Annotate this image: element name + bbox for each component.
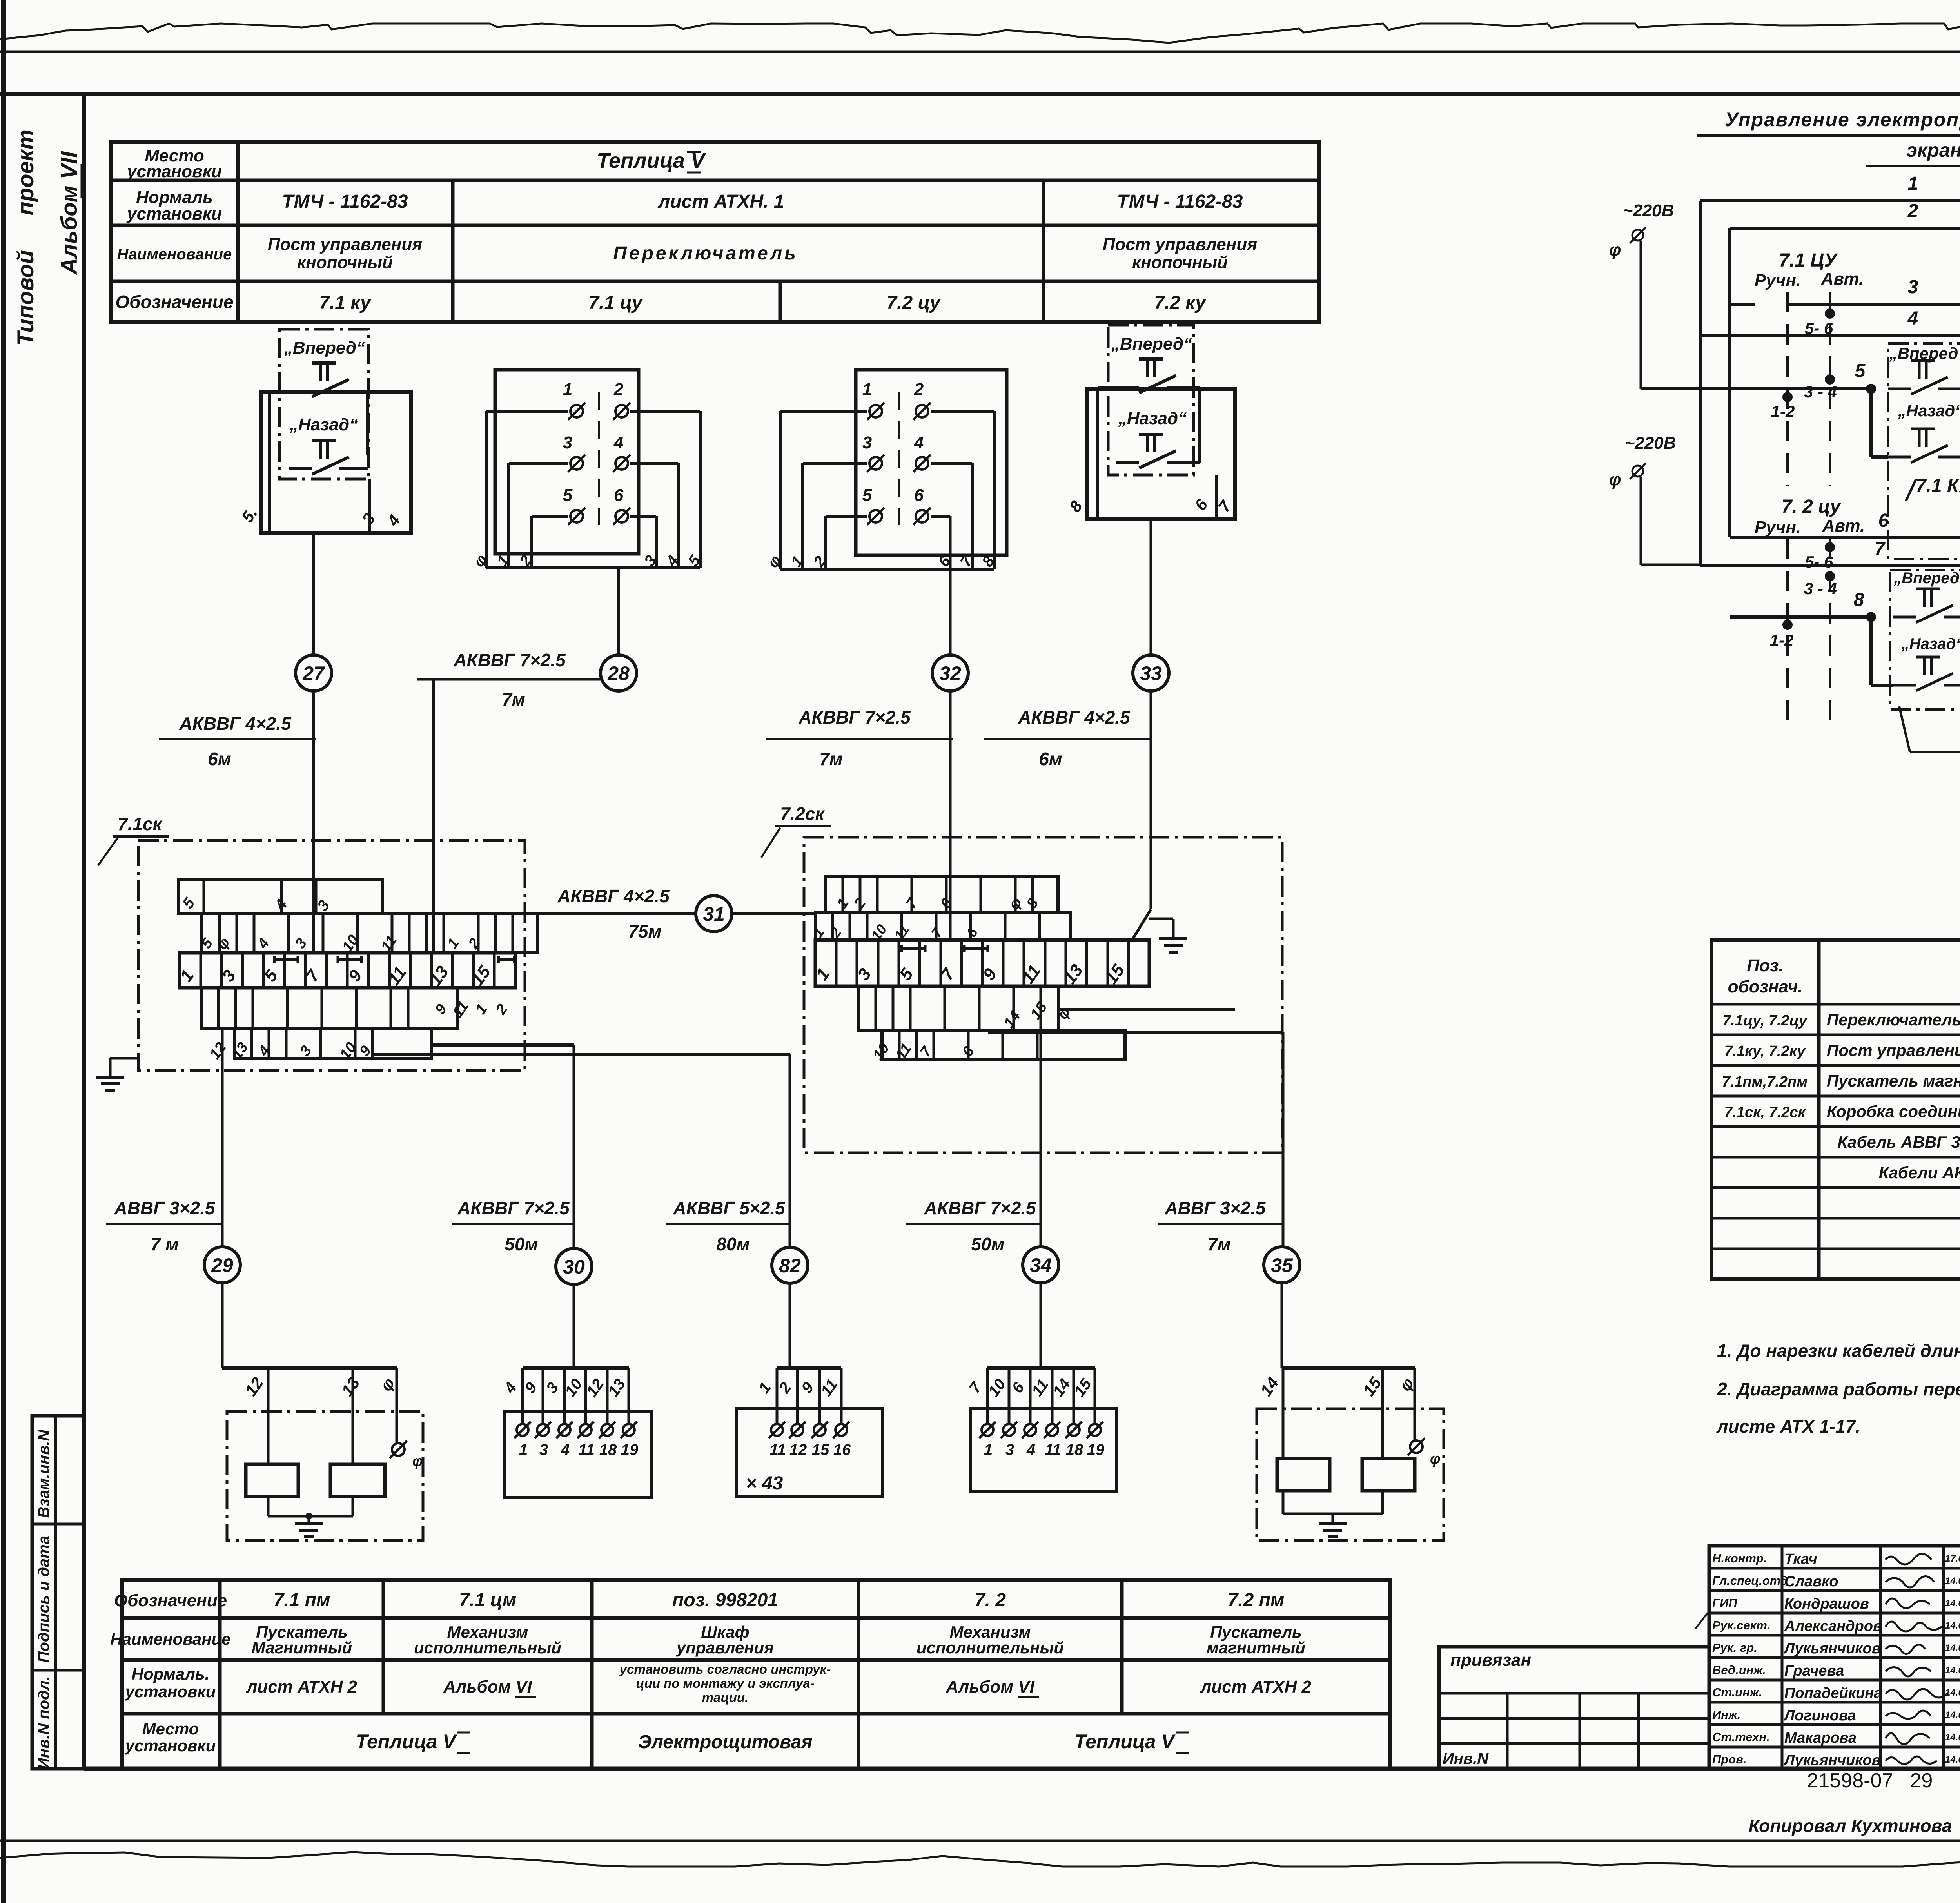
svg-text:АКВВГ 4×2.5: АКВВГ 4×2.5 bbox=[179, 713, 292, 734]
post 7.2ку internal wires bbox=[1098, 386, 1116, 389]
branch to Назад contact bbox=[1869, 389, 1873, 457]
svg-text:Пров.: Пров. bbox=[1712, 1752, 1747, 1766]
svg-text:установки: установки bbox=[126, 162, 222, 181]
svg-text:6: 6 bbox=[1878, 510, 1889, 531]
svg-text:Альбом VI: Альбом VI bbox=[946, 1677, 1035, 1696]
packet switch 7.1цу core wires bbox=[486, 410, 568, 413]
svg-text:Пост управления: Пост управления bbox=[268, 235, 422, 254]
svg-text:7 м: 7 м bbox=[151, 1234, 179, 1254]
svg-text:30: 30 bbox=[563, 1256, 585, 1278]
svg-text:3: 3 bbox=[563, 433, 572, 452]
svg-text:11: 11 bbox=[769, 1441, 786, 1459]
svg-text:φ: φ bbox=[1609, 240, 1621, 259]
svg-text:φ: φ bbox=[1609, 470, 1621, 489]
starter 7.2пм coil 2 bbox=[1362, 1459, 1415, 1491]
main wire upper group bbox=[1641, 387, 1866, 390]
drawing frame bbox=[82, 94, 86, 1769]
bottom margin line bbox=[0, 1840, 1960, 1842]
button 7.1ку in control circuit bbox=[1888, 343, 1960, 559]
cabinet terminal 4 bbox=[835, 1424, 847, 1436]
cable marker 33 bbox=[1133, 655, 1169, 691]
parts list table bbox=[1711, 940, 1960, 1279]
wire: cable 28 down to box 7.1ск bbox=[432, 679, 435, 953]
starter 7.1пм coil 2 bbox=[330, 1464, 385, 1497]
svg-text:обознач.: обознач. bbox=[1728, 977, 1803, 996]
box 7.2ск upper channel row B bbox=[815, 913, 1070, 940]
svg-text:15: 15 bbox=[812, 1441, 829, 1459]
mechanism 7.2 terminal 2 bbox=[1003, 1424, 1015, 1436]
mechanism 7.2 terminal 4 bbox=[1046, 1424, 1058, 1436]
box 7.2ск ground bbox=[1149, 918, 1173, 920]
mechanism 7.2 terminal 1 bbox=[982, 1424, 993, 1436]
wire 6 bbox=[1730, 536, 1960, 539]
svg-text:14.01.86г: 14.01.86г bbox=[1945, 1665, 1960, 1676]
starter 7.2пм ground bbox=[1282, 1491, 1285, 1514]
packet switch 7.1цу terminal 6 bbox=[615, 510, 628, 522]
svg-text:исполнительный: исполнительный bbox=[916, 1638, 1064, 1657]
svg-text:14.01.86г: 14.01.86г bbox=[1945, 1732, 1960, 1743]
svg-text:Инж.: Инж. bbox=[1712, 1708, 1740, 1722]
svg-text:6: 6 bbox=[914, 486, 924, 505]
svg-text:Логинова: Логинова bbox=[1783, 1707, 1856, 1724]
svg-text:7: 7 bbox=[1875, 539, 1886, 559]
post 7.1ку internal wires bbox=[270, 390, 289, 393]
svg-text:4: 4 bbox=[914, 433, 924, 452]
svg-text:Подпись и дата: Подпись и дата bbox=[35, 1536, 53, 1663]
svg-text:АКВВГ 5×2.5: АКВВГ 5×2.5 bbox=[673, 1198, 786, 1218]
svg-text:1: 1 bbox=[862, 380, 872, 399]
box 7.2ск lower channel row C bbox=[858, 986, 1058, 1031]
table: bottom equipment designation bbox=[122, 1580, 1390, 1769]
main wire lower group bbox=[1730, 615, 1866, 619]
svg-text:Лукьянчиков: Лукьянчиков bbox=[1783, 1752, 1881, 1769]
svg-text:7.1 ку: 7.1 ку bbox=[319, 292, 372, 313]
mechanism 7.2 terminal 5 bbox=[1068, 1424, 1080, 1436]
svg-text:Наименование: Наименование bbox=[117, 246, 232, 263]
cable marker 27 bbox=[296, 655, 332, 691]
svg-text:7.1 ЦУ: 7.1 ЦУ bbox=[1779, 250, 1838, 271]
svg-text:Ручн.: Ручн. bbox=[1755, 518, 1801, 537]
wire 3 bbox=[1730, 303, 1755, 306]
wire: cable 32 down to box 7.2ск bbox=[949, 691, 952, 940]
table: equipment designation (top left) bbox=[111, 142, 1319, 322]
svg-text:Пост управления кнопочный ПКЕ: Пост управления кнопочный ПКЕ 222-2 bbox=[1827, 1041, 1960, 1059]
packet switch 7.2цу terminal 3 bbox=[869, 457, 882, 470]
svg-text:Пускатель магнитный: Пускатель магнитный bbox=[1827, 1072, 1960, 1090]
svg-text:2: 2 bbox=[1907, 201, 1918, 221]
packet switch 7.2цу bbox=[856, 370, 1007, 555]
svg-text:35: 35 bbox=[1271, 1254, 1293, 1276]
svg-text:7.2 цу: 7.2 цу bbox=[886, 292, 941, 313]
torn paper edge top bbox=[0, 24, 1960, 43]
svg-text:31: 31 bbox=[703, 903, 725, 925]
svg-text:ции по монтажу и эксплуа-: ции по монтажу и эксплуа- bbox=[636, 1676, 814, 1691]
cable marker 30 bbox=[556, 1248, 592, 1284]
control cabinet terminals поз.998201 (bottom) bbox=[777, 1366, 841, 1370]
svg-text:2: 2 bbox=[914, 380, 924, 399]
starter 7.1пм ground bbox=[267, 1497, 270, 1516]
svg-text:Ст.инж.: Ст.инж. bbox=[1712, 1685, 1762, 1699]
svg-text:4: 4 bbox=[613, 433, 623, 452]
svg-text:листе АТХ 1-17.: листе АТХ 1-17. bbox=[1716, 1416, 1860, 1437]
svg-text:3: 3 bbox=[539, 1441, 548, 1459]
svg-text:6м: 6м bbox=[208, 749, 231, 769]
cable 31 line bbox=[537, 912, 696, 915]
svg-text:Копировал Кухтинова: Копировал Кухтинова bbox=[1749, 1816, 1952, 1836]
svg-text:Кабели АКВВГ ГОСТ 1508-: Кабели АКВВГ ГОСТ 1508-78 bbox=[1879, 1163, 1960, 1182]
torn paper edge bottom bbox=[0, 1850, 1960, 1867]
svg-text:50м: 50м bbox=[971, 1234, 1004, 1254]
svg-text:„Вперед“: „Вперед“ bbox=[1893, 570, 1960, 587]
packet switch 7.2цу terminal 5 bbox=[869, 510, 882, 522]
wire: box 7.2ск to cable 35 bbox=[988, 1031, 1283, 1034]
box 7.1ск ground bbox=[110, 1057, 138, 1060]
svg-text:1-2: 1-2 bbox=[1770, 631, 1794, 649]
svg-text:АВВГ 3×2.5: АВВГ 3×2.5 bbox=[114, 1198, 215, 1218]
svg-text:Переключатель пакетный ПКП 25-: Переключатель пакетный ПКП 25- 44 -13-У2 bbox=[1827, 1010, 1960, 1029]
svg-text:~220В: ~220В bbox=[1625, 434, 1676, 453]
svg-text:7.1ск: 7.1ск bbox=[118, 814, 163, 834]
svg-text:6м: 6м bbox=[1039, 749, 1062, 769]
mechanism 7.2 (bottom) bbox=[987, 1366, 1095, 1370]
box 7.2ск terminal strip bbox=[815, 940, 1149, 986]
svg-text:80м: 80м bbox=[716, 1234, 750, 1254]
packet switch 7.1цу terminal 3 bbox=[570, 457, 583, 470]
svg-text:5- 6: 5- 6 bbox=[1805, 553, 1833, 571]
wire: cable 27 down to box 7.1ск bbox=[312, 691, 315, 953]
svg-text:32: 32 bbox=[939, 662, 961, 684]
svg-text:Коробка соединительная КСК-1: Коробка соединительная КСК-16 ТУ36.1753-… bbox=[1827, 1102, 1960, 1121]
svg-text:7.2 ку: 7.2 ку bbox=[1154, 292, 1207, 313]
svg-text:„Назад“: „Назад“ bbox=[289, 415, 358, 434]
svg-text:7.1 КУ: 7.1 КУ bbox=[1916, 475, 1960, 496]
svg-text:11: 11 bbox=[578, 1441, 595, 1459]
svg-text:7м: 7м bbox=[502, 689, 525, 709]
svg-text:17.01.86: 17.01.86 bbox=[1945, 1553, 1960, 1564]
packet switch 7.1цу terminal 5 bbox=[570, 510, 583, 522]
svg-text:19: 19 bbox=[621, 1441, 639, 1459]
svg-text:5- 6: 5- 6 bbox=[1805, 319, 1833, 337]
packet switch 7.2цу terminal 2 bbox=[916, 405, 928, 417]
svg-text:82: 82 bbox=[779, 1255, 801, 1277]
svg-text:4: 4 bbox=[561, 1441, 570, 1459]
svg-text:привязан: привязан bbox=[1450, 1651, 1531, 1670]
svg-text:7.2 пм: 7.2 пм bbox=[1228, 1590, 1285, 1611]
svg-text:Гл.спец.отд: Гл.спец.отд bbox=[1712, 1574, 1788, 1587]
starter 7.1пм terminal Оф bbox=[392, 1443, 405, 1456]
svg-text:7.2ск: 7.2ск bbox=[780, 804, 826, 824]
svg-text:АКВВГ 7×2.5: АКВВГ 7×2.5 bbox=[924, 1198, 1036, 1218]
svg-text:АКВВГ 4×2.5: АКВВГ 4×2.5 bbox=[1018, 707, 1131, 727]
svg-text:1. До нарезки кабелей длин: 1. До нарезки кабелей длины трасс уточни… bbox=[1717, 1341, 1960, 1361]
title block: привязан table bbox=[1439, 1647, 1709, 1769]
cable marker 82 bbox=[772, 1247, 808, 1283]
cable marker 32 bbox=[932, 655, 968, 691]
packet switch 7.2цу terminal 4 bbox=[916, 457, 928, 470]
svg-text:28: 28 bbox=[607, 662, 630, 684]
svg-text:Н.контр.: Н.контр. bbox=[1712, 1551, 1767, 1565]
svg-text:Авт.: Авт. bbox=[1822, 516, 1865, 535]
svg-text:„Вперед“: „Вперед“ bbox=[1111, 334, 1192, 354]
margin stamp boxes bbox=[32, 1416, 84, 1769]
svg-text:1-2: 1-2 bbox=[1771, 402, 1795, 421]
svg-text:кнопочный: кнопочный bbox=[1132, 253, 1228, 272]
cable marker 31 bbox=[696, 896, 732, 932]
svg-text:14.01.86г: 14.01.86г bbox=[1945, 1710, 1960, 1720]
svg-text:5: 5 bbox=[563, 486, 573, 505]
svg-text:ТМЧ - 1162-83: ТМЧ - 1162-83 bbox=[1117, 191, 1243, 212]
svg-text:АВВГ 3×2.5: АВВГ 3×2.5 bbox=[1164, 1198, 1266, 1218]
svg-text:7.1 пм: 7.1 пм bbox=[274, 1590, 330, 1611]
wire: switch 7.2цу to cable 32 bbox=[949, 516, 952, 655]
svg-text:„Вперед“: „Вперед“ bbox=[284, 338, 365, 357]
svg-text:Инв.N подл.: Инв.N подл. bbox=[35, 1676, 53, 1769]
svg-text:„Назад“: „Назад“ bbox=[1898, 401, 1960, 420]
svg-text:Макарова: Макарова bbox=[1784, 1730, 1857, 1746]
svg-text:Кабель АВВГ 3×2.5-0.66 ГОСТ 1: Кабель АВВГ 3×2.5-0.66 ГОСТ 16442-80 bbox=[1837, 1133, 1960, 1151]
svg-text:7.1пм,7.2пм: 7.1пм,7.2пм bbox=[1722, 1074, 1808, 1090]
mechanism 7.1цм terminal 1 bbox=[517, 1424, 528, 1436]
svg-text:Наименование: Наименование bbox=[110, 1630, 230, 1648]
svg-text:Рук.сект.: Рук.сект. bbox=[1712, 1618, 1770, 1632]
mechanism 7.1цм terminal 2 bbox=[537, 1424, 549, 1436]
box 7.1ск lower channel row D bbox=[234, 1029, 431, 1058]
mechanism 7.1цм terminal 5 bbox=[601, 1424, 613, 1436]
svg-text:Теплица V: Теплица V bbox=[356, 1731, 457, 1752]
wire: post 7.1ку to cable 27 bbox=[312, 533, 315, 655]
box 7.1ск upper channel row A bbox=[179, 880, 383, 914]
mechanism 7.1цм (bottom) bbox=[523, 1366, 629, 1370]
svg-text:16: 16 bbox=[833, 1441, 851, 1459]
mechanism 7.2 terminal 3 bbox=[1024, 1424, 1036, 1436]
svg-text:Грачева: Грачева bbox=[1784, 1663, 1844, 1679]
svg-text:7.1ку, 7.2ку: 7.1ку, 7.2ку bbox=[1724, 1043, 1806, 1059]
svg-text:4: 4 bbox=[1026, 1441, 1035, 1459]
svg-text:Ст.техн.: Ст.техн. bbox=[1712, 1730, 1770, 1744]
svg-text:50м: 50м bbox=[505, 1234, 538, 1254]
packet switch 7.1цу terminal 1 bbox=[570, 405, 583, 417]
svg-text:1: 1 bbox=[1908, 173, 1918, 194]
svg-text:3 - 4: 3 - 4 bbox=[1804, 579, 1837, 598]
left paper edge bbox=[1, 0, 6, 1903]
wire 1 bbox=[1700, 199, 1960, 202]
svg-text:„Назад“: „Назад“ bbox=[1901, 635, 1960, 653]
wire: box 7.2ск to cable 34 bbox=[1040, 986, 1042, 1247]
svg-text:4: 4 bbox=[1907, 308, 1918, 329]
svg-text:лист АТХН. 1: лист АТХН. 1 bbox=[657, 191, 784, 212]
svg-text:Поз.: Поз. bbox=[1747, 956, 1783, 975]
svg-text:27: 27 bbox=[302, 662, 325, 684]
svg-text:7м: 7м bbox=[1207, 1234, 1231, 1254]
svg-text:установки: установки bbox=[125, 1682, 216, 1701]
svg-text:Теплица V: Теплица V bbox=[1074, 1731, 1176, 1752]
box 7.2ск lower channel row D bbox=[882, 1031, 1125, 1059]
wire: cable 33 down to box 7.2ск bbox=[1150, 691, 1152, 909]
svg-text:12: 12 bbox=[789, 1441, 807, 1459]
svg-text:ГИП: ГИП bbox=[1712, 1596, 1737, 1610]
svg-text:поз. 998201: поз. 998201 bbox=[672, 1590, 778, 1611]
wire: box 7.1ск to cable 30 bbox=[431, 1043, 574, 1047]
svg-text:φ: φ bbox=[1430, 1451, 1441, 1467]
svg-text:Управление электроприводами: Управление электроприводами теплозащитно… bbox=[1725, 109, 1960, 131]
svg-text:Нормаль.: Нормаль. bbox=[132, 1665, 210, 1683]
packet switch 7.1цу terminal 2 bbox=[615, 405, 628, 417]
svg-text:2: 2 bbox=[613, 380, 624, 399]
box 7.2ск upper channel row A bbox=[825, 877, 1058, 913]
cable marker 35 bbox=[1264, 1247, 1300, 1283]
svg-text:34: 34 bbox=[1030, 1254, 1052, 1276]
packet switch 7.2цу terminal 1 bbox=[869, 405, 882, 417]
box 7.2ск strip jumpers bbox=[902, 947, 925, 950]
packet switch 7.1цу terminal 4 bbox=[615, 457, 628, 470]
svg-text:18: 18 bbox=[1066, 1441, 1083, 1459]
svg-text:Пост управления: Пост управления bbox=[1103, 235, 1257, 254]
box 7.1ск lower channel row C bbox=[201, 988, 457, 1029]
svg-text:Взам.инв.N: Взам.инв.N bbox=[35, 1429, 53, 1518]
svg-text:1: 1 bbox=[563, 380, 572, 399]
sheet border top line bbox=[0, 51, 1960, 53]
svg-text:33: 33 bbox=[1140, 662, 1162, 684]
svg-text:АКВВГ 7×2.5: АКВВГ 7×2.5 bbox=[798, 707, 911, 727]
svg-text:3 - 4: 3 - 4 bbox=[1804, 383, 1837, 401]
svg-text:„Назад“: „Назад“ bbox=[1118, 409, 1187, 428]
svg-text:Типовой: Типовой bbox=[13, 250, 38, 346]
svg-text:ТМЧ - 1162-83: ТМЧ - 1162-83 bbox=[282, 191, 408, 212]
svg-text:Электрощитовая: Электрощитовая bbox=[638, 1732, 813, 1752]
svg-text:Магнитный: Магнитный bbox=[252, 1638, 352, 1657]
svg-text:7. 2 цу: 7. 2 цу bbox=[1782, 496, 1842, 517]
svg-text:кнопочный: кнопочный bbox=[297, 253, 393, 272]
mechanism 7.2 terminal 6 bbox=[1089, 1424, 1101, 1436]
mechanism 7.1цм terminal 6 bbox=[623, 1424, 635, 1436]
push-button post 7.1ку (left) bbox=[279, 329, 368, 479]
svg-text:14.01.86г: 14.01.86г bbox=[1945, 1576, 1960, 1586]
cable marker 28 bbox=[601, 655, 637, 691]
bus 1 bbox=[1699, 201, 1702, 565]
svg-text:18: 18 bbox=[599, 1441, 617, 1459]
svg-text:АКВВГ 7×2.5: АКВВГ 7×2.5 bbox=[457, 1198, 570, 1218]
svg-text:3: 3 bbox=[1908, 277, 1918, 298]
wires from markers down to consumers bbox=[221, 1283, 224, 1368]
svg-text:Вед.инж.: Вед.инж. bbox=[1712, 1663, 1766, 1677]
svg-text:АКВВГ 4×2.5: АКВВГ 4×2.5 bbox=[557, 886, 670, 906]
svg-text:Обозначение: Обозначение bbox=[115, 292, 233, 312]
cable marker 34 bbox=[1023, 1247, 1059, 1283]
wire 7 bbox=[1700, 564, 1960, 567]
cabinet terminal 2 bbox=[791, 1424, 803, 1436]
box 7.1ск terminal strip bbox=[180, 953, 515, 988]
cabinet terminal 3 bbox=[814, 1424, 826, 1436]
svg-text:5: 5 bbox=[862, 486, 872, 505]
starter 7.2пм terminal Оф bbox=[1410, 1440, 1423, 1453]
box 7.1ск strip jumpers bbox=[274, 958, 298, 961]
title block: signature table bbox=[1709, 1546, 1960, 1769]
svg-text:Авт.: Авт. bbox=[1821, 269, 1864, 288]
bus 2 bbox=[1728, 228, 1731, 537]
svg-text:× 43: × 43 bbox=[746, 1473, 783, 1494]
cable marker 29 bbox=[204, 1247, 240, 1283]
svg-text:5: 5 bbox=[1855, 361, 1866, 381]
svg-text:7. 2: 7. 2 bbox=[975, 1590, 1006, 1611]
starter 7.1пм (bottom left) bbox=[222, 1366, 397, 1370]
svg-text:14.01.86: 14.01.86 bbox=[1945, 1687, 1960, 1698]
svg-text:3: 3 bbox=[862, 433, 872, 452]
svg-text:АКВВГ 7×2.5: АКВВГ 7×2.5 bbox=[453, 650, 566, 670]
svg-text:Инв.N: Инв.N bbox=[1443, 1750, 1489, 1767]
svg-text:19: 19 bbox=[1087, 1441, 1105, 1459]
junction box 7.2ск outline bbox=[804, 837, 1282, 1153]
svg-text:7.1 цм: 7.1 цм bbox=[459, 1590, 517, 1611]
svg-text:управления: управления bbox=[676, 1638, 774, 1657]
svg-text:экрана.: экрана. bbox=[1906, 139, 1960, 161]
button 7.2ку in control circuit bbox=[1890, 570, 1960, 709]
sheet border second line bbox=[0, 92, 1960, 96]
packet switch 7.1цу bbox=[495, 370, 639, 554]
svg-text:7.1ск, 7.2ск: 7.1ск, 7.2ск bbox=[1724, 1104, 1806, 1121]
packet switch 7.2цу terminal 6 bbox=[916, 510, 928, 522]
svg-text:Ручн.: Ручн. bbox=[1755, 271, 1801, 290]
wire: box 7.1ск to cable 29 bbox=[221, 1029, 224, 1247]
wire 4 bbox=[1700, 334, 1960, 337]
starter 7.2пм coil 1 bbox=[1277, 1459, 1330, 1491]
packet switch 7.2цу core wires bbox=[780, 410, 867, 413]
svg-text:магнитный: магнитный bbox=[1207, 1638, 1305, 1657]
starter 7.2пм (bottom right) bbox=[1282, 1366, 1415, 1370]
svg-text:7м: 7м bbox=[819, 749, 843, 769]
svg-text:φ: φ bbox=[412, 1453, 423, 1469]
box 7.1ск upper channel row B bbox=[202, 914, 537, 953]
svg-text:установить согласно инструк-: установить согласно инструк- bbox=[619, 1662, 831, 1676]
svg-text:лист АТХН 2: лист АТХН 2 bbox=[1200, 1677, 1312, 1696]
svg-text:75м: 75м bbox=[628, 921, 661, 942]
svg-text:3: 3 bbox=[1005, 1441, 1014, 1459]
svg-text:2. Диаграмма работы перекл: 2. Диаграмма работы переключателей дана … bbox=[1717, 1379, 1960, 1399]
svg-text:Альбом VI: Альбом VI bbox=[443, 1677, 532, 1696]
mechanism 7.1цм terminal 3 bbox=[559, 1424, 570, 1436]
svg-text:14.01.86г: 14.01.86г bbox=[1945, 1598, 1960, 1609]
svg-text:Обозначение: Обозначение bbox=[114, 1591, 227, 1610]
svg-text:исполнительный: исполнительный bbox=[414, 1638, 561, 1657]
svg-text:14.01.86г: 14.01.86г bbox=[1945, 1620, 1960, 1631]
wire: switch 7.1цу to cable 28 bbox=[617, 568, 620, 655]
svg-text:Переключатель: Переключатель bbox=[613, 243, 798, 264]
svg-text:14.01.86г: 14.01.86г bbox=[1945, 1643, 1960, 1653]
svg-text:21598-07 29: 21598-07 29 bbox=[1807, 1769, 1933, 1792]
svg-text:29: 29 bbox=[211, 1254, 233, 1276]
svg-text:тации.: тации. bbox=[702, 1690, 749, 1705]
svg-text:Славко: Славко bbox=[1784, 1573, 1838, 1590]
wire: post 7.2ку to cable 33 bbox=[1150, 519, 1152, 655]
svg-text:~220В: ~220В bbox=[1623, 201, 1674, 220]
svg-text:1: 1 bbox=[984, 1441, 993, 1459]
svg-text:Попадейкина: Попадейкина bbox=[1784, 1685, 1882, 1702]
svg-text:11: 11 bbox=[1045, 1441, 1061, 1459]
wire: box 7.1ск to cable 82 bbox=[372, 1053, 790, 1056]
junction box 7.1ск outline bbox=[138, 840, 525, 1070]
wire 2 bbox=[1730, 227, 1960, 230]
push-button post 7.2ку (top) bbox=[1108, 325, 1194, 475]
svg-text:Лукьянчиков: Лукьянчиков bbox=[1783, 1640, 1881, 1657]
svg-text:Рук. гр.: Рук. гр. bbox=[1712, 1641, 1757, 1654]
svg-text:Место: Место bbox=[142, 1720, 199, 1738]
svg-text:8: 8 bbox=[1854, 590, 1864, 610]
svg-text:лист АТХН 2: лист АТХН 2 bbox=[246, 1677, 358, 1696]
svg-text:1: 1 bbox=[519, 1441, 528, 1459]
svg-text:Александров: Александров bbox=[1784, 1618, 1882, 1635]
svg-text:установки: установки bbox=[126, 204, 222, 223]
svg-text:Ткач: Ткач bbox=[1784, 1551, 1817, 1567]
svg-text:Альбом VII: Альбом VII bbox=[56, 151, 82, 275]
